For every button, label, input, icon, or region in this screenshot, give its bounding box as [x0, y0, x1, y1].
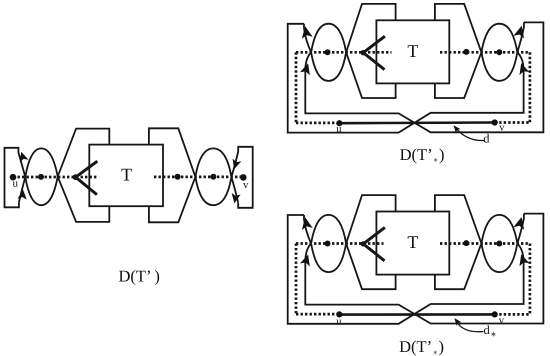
box T top-right	[376, 20, 449, 83]
svg-text:T: T	[407, 41, 418, 61]
arrowhead of d pointer	[451, 123, 460, 133]
wire: strand A bottom-lip to lens-top-arc to band-bottom	[19, 148, 109, 222]
dotted right vertical	[529, 244, 532, 315]
wire: thick d strand	[339, 121, 494, 124]
dotted right vertical	[529, 52, 532, 123]
wire: thick d* strand	[339, 313, 494, 316]
box T bottom-right	[376, 212, 449, 275]
svg-text:v: v	[499, 316, 505, 327]
node lens-right dot	[496, 49, 502, 55]
box T left	[89, 145, 163, 207]
svg-text:u: u	[336, 124, 342, 135]
wire: top-left connector to lens-left lower arc to band left top	[304, 4, 396, 81]
arrowhead right inner vertical	[516, 253, 529, 267]
direction marker < on axis	[363, 36, 385, 69]
arrowhead of d* pointer	[452, 316, 461, 326]
node u dot bottom	[336, 120, 342, 126]
arrowhead left inner vertical	[300, 253, 313, 267]
arrowhead left inner vertical	[300, 62, 313, 76]
curved arrow to d*	[455, 320, 483, 332]
node lens-right dot	[496, 241, 502, 247]
node v dot bottom	[492, 119, 498, 125]
arrowhead top-right connector	[513, 216, 527, 230]
direction marker < on axis	[76, 161, 98, 194]
node lens-left dot	[325, 241, 331, 247]
dotted left vertical	[295, 244, 298, 315]
svg-text:u: u	[336, 316, 342, 327]
arrowhead upper-left	[17, 150, 29, 162]
node v dot	[240, 174, 247, 181]
wire: strand B top-lip to lens-bottom-arc to band-top	[18, 129, 109, 206]
arrowhead lower-left	[18, 189, 28, 200]
svg-text:d∗: d∗	[484, 323, 497, 339]
node v dot bottom	[492, 311, 498, 317]
node lens-right dot	[210, 174, 216, 180]
wire: outer loop alpha	[288, 215, 524, 324]
node lens-left dot	[38, 174, 44, 180]
dotted bottom right segment	[495, 121, 530, 124]
svg-text:D(T’∗): D(T’∗)	[400, 145, 445, 164]
svg-text:v: v	[243, 179, 249, 191]
node arrow-vertex dot	[361, 50, 366, 55]
arrowhead lower-right	[230, 193, 241, 204]
svg-text:D(T’∗): D(T’∗)	[399, 337, 444, 356]
dotted axis right segment	[154, 176, 243, 179]
node right-of-box dot	[175, 174, 181, 180]
svg-text:d: d	[483, 132, 490, 146]
svg-text:v: v	[499, 123, 505, 134]
arrowhead top-right connector	[513, 24, 527, 38]
svg-text:D(T’ ): D(T’ )	[119, 267, 160, 286]
curved arrow to d	[455, 127, 485, 141]
node arrow-vertex dot	[361, 241, 366, 246]
wire: top-right connector to lens-right lower arc to band right top	[435, 4, 524, 81]
wire: strand B' right top-lip to lens-bottom-arc to band-top	[149, 128, 238, 205]
direction marker < on axis	[363, 227, 385, 260]
right bracket	[238, 147, 253, 208]
node right-of-box dot	[463, 49, 469, 55]
wire: top-right connector	[435, 195, 524, 272]
node arrow-vertex dot	[73, 174, 79, 180]
node lens-left dot	[325, 49, 331, 55]
arrowhead right inner vertical	[516, 62, 529, 76]
arrowhead top-left connector	[300, 25, 313, 38]
node right-of-box dot	[463, 240, 469, 246]
dotted axis left segment	[296, 242, 384, 245]
dotted bottom right segment	[495, 313, 530, 316]
wire: strand A' right bottom-lip to lens-top-arc to band-bottom	[149, 148, 238, 222]
node u dot	[10, 174, 17, 181]
dotted axis left segment	[13, 176, 97, 179]
left bracket	[5, 148, 19, 208]
dotted axis left segment	[296, 51, 392, 54]
svg-text:T: T	[121, 165, 132, 185]
wire: outer loop alpha (left lip, left wall, bottom, up-slant, inner-right, to lens-right upper arc, band right bottom)	[288, 24, 524, 133]
arrowhead top-left connector	[300, 216, 313, 229]
svg-text:T: T	[407, 232, 418, 252]
dotted bottom left segment	[296, 313, 339, 316]
dotted axis right segment	[440, 242, 530, 245]
wire: top-left connector	[304, 195, 396, 272]
svg-text:u: u	[13, 178, 19, 190]
dotted left vertical	[295, 52, 298, 123]
dotted axis right segment	[440, 51, 530, 54]
wire: outer loop beta	[305, 214, 543, 324]
arrowhead upper-right	[230, 159, 242, 171]
dotted bottom left segment	[296, 122, 339, 125]
node u dot bottom	[336, 311, 342, 317]
wire: outer loop beta (right lip, right wall, bottom, down-slant, inner-left, to lens-left upper arc, band left bottom)	[305, 22, 543, 132]
